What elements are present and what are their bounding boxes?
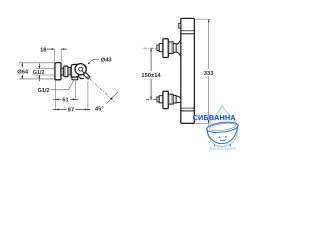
bottom supply: union collar xyxy=(173,96,176,104)
face smile xyxy=(220,140,227,141)
Ø64 top leader line (flange top extended) xyxy=(19,62,55,64)
tub right foot xyxy=(229,145,232,147)
extension line right (flange rear face) xyxy=(60,49,62,62)
dimension 61 line xyxy=(53,98,78,100)
column joint line upper 1 xyxy=(181,30,194,32)
body bottom edge xyxy=(70,76,80,78)
extension line at wall face (shared 61/97) xyxy=(55,80,57,110)
top supply: wall nut small xyxy=(157,45,159,50)
extension line at lever tip (97) xyxy=(87,81,89,111)
lever tip notch xyxy=(87,76,89,78)
svg-text:45°: 45° xyxy=(95,106,104,112)
G1/2 lower leader line (stem bottom extended) xyxy=(33,74,55,76)
svg-text:Ø43: Ø43 xyxy=(101,58,113,64)
svg-text:150±14: 150±14 xyxy=(141,73,161,79)
Ø64 dimension arrows xyxy=(21,63,23,68)
dimension 150±14 line lower with arrow xyxy=(150,79,152,100)
extension line at outlet axis (61) xyxy=(75,80,77,100)
bathtub rim outer xyxy=(206,121,239,134)
333 bottom extension line xyxy=(195,122,210,124)
svg-text:97: 97 xyxy=(68,108,74,114)
valve body xyxy=(71,64,80,77)
escutcheon nut xyxy=(64,66,68,77)
water drop outline xyxy=(207,106,237,147)
svg-text:G1/2: G1/2 xyxy=(33,70,45,76)
svg-text:G1/2: G1/2 xyxy=(38,88,50,94)
top supply: S-bend to column lower xyxy=(176,52,181,57)
svg-text:333: 333 xyxy=(204,71,214,77)
bottom supply: union block xyxy=(168,94,173,104)
dimension 18 line right segment with arrow xyxy=(61,48,67,50)
thermostat column xyxy=(181,18,195,123)
svg-text:СИБВАННА: СИБВАННА xyxy=(193,113,236,122)
top supply: union block xyxy=(168,42,173,54)
column joint line lower 2 xyxy=(181,110,194,112)
bathtub rim inner xyxy=(209,122,236,132)
333 dimension line upper with arrow xyxy=(208,19,210,69)
knob pointer tick xyxy=(82,71,84,73)
svg-text:61: 61 xyxy=(62,97,69,103)
leader for outlet G1/2 xyxy=(51,80,74,90)
bathtub bowl xyxy=(207,127,238,144)
top supply: S-bend to column upper xyxy=(176,39,181,45)
angle arrowhead xyxy=(110,97,113,100)
bottom supply: flange xyxy=(163,91,168,108)
G1/2 dimension arrows (outside) xyxy=(38,64,40,69)
dimension 97 line xyxy=(53,108,90,110)
extension line left (flange front face) xyxy=(54,49,56,62)
body chin step under knob xyxy=(80,77,84,79)
stem G1/2 xyxy=(61,68,64,75)
face eyes xyxy=(219,136,221,138)
333 dimension line lower with arrow xyxy=(208,76,210,123)
bottom supply: nut xyxy=(159,96,163,103)
svg-text:мир для ванной: мир для ванной xyxy=(210,146,236,150)
top supply: nut xyxy=(159,44,163,52)
handle knob circle Ø43 xyxy=(75,64,86,75)
leader for Ø43 xyxy=(88,59,99,63)
column joint line lower 1 xyxy=(181,107,194,109)
svg-text:18: 18 xyxy=(40,47,47,53)
column joint line upper 2 xyxy=(181,33,194,35)
dimension 18 line left segment with arrow xyxy=(47,48,55,50)
knob inner circle xyxy=(79,67,83,71)
333 top extension line xyxy=(195,18,210,20)
bottom supply: wall nut small xyxy=(157,97,159,102)
lever 45° centreline (dash-dot) xyxy=(90,79,116,103)
tub left foot xyxy=(213,145,216,147)
G1/2 upper leader line (stem top extended) xyxy=(36,68,55,70)
collar xyxy=(68,68,71,75)
inner drop line xyxy=(215,112,222,121)
angle dimension line crossing xyxy=(106,92,118,104)
top supply: union collar xyxy=(173,44,176,53)
dimension 150±14 line upper with arrow xyxy=(150,48,152,71)
column left button xyxy=(179,23,181,28)
bottom supply: bend to column upper xyxy=(176,96,181,98)
bottom supply: bend to column lower xyxy=(176,101,181,103)
outlet fitting G1/2 down xyxy=(72,77,78,80)
svg-text:Ø64: Ø64 xyxy=(17,69,29,75)
lever handle at 45° xyxy=(83,72,90,79)
centreline top supply (dash-dot) xyxy=(144,47,177,49)
Ø64 bottom leader line (flange bottom extended) xyxy=(19,78,55,80)
top supply: flange xyxy=(163,39,168,58)
centreline bottom supply (dash-dot) xyxy=(146,99,176,101)
wall flange xyxy=(55,63,61,80)
